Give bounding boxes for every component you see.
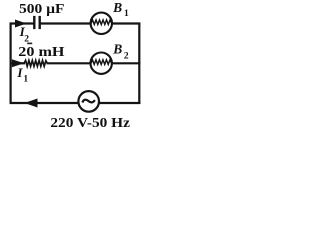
current arrow I1 (right) bbox=[12, 59, 24, 67]
current arrow I2 (right) bbox=[15, 20, 26, 28]
capacitor C 500uF plate right bbox=[39, 16, 41, 29]
svg-text:500 µF: 500 µF bbox=[19, 2, 65, 17]
current arrow bottom (left) bbox=[25, 99, 38, 108]
svg-text:B: B bbox=[112, 0, 122, 15]
lamp B1 filament zigzag bbox=[91, 20, 112, 25]
wire top branch capacitor-to-B1 segment bbox=[41, 22, 92, 24]
artifact mark above 0 bbox=[27, 43, 32, 45]
lamp B2 circle bbox=[91, 53, 112, 74]
svg-text:B: B bbox=[112, 42, 122, 57]
svg-text:I: I bbox=[16, 65, 23, 80]
wire right vertical bbox=[138, 23, 140, 105]
svg-text:220 V-50 Hz: 220 V-50 Hz bbox=[50, 116, 129, 131]
inductor L 20mH zigzag bbox=[24, 60, 47, 66]
wire left vertical bbox=[10, 23, 12, 105]
svg-text:1: 1 bbox=[23, 74, 28, 84]
lamp B1 circle bbox=[91, 13, 112, 34]
wire middle branch inductor-to-B2 segment bbox=[47, 62, 92, 64]
AC source tilde bbox=[82, 100, 95, 103]
svg-text:20 mH: 20 mH bbox=[18, 45, 64, 60]
wire middle branch left segment bbox=[10, 62, 26, 64]
AC source circle bbox=[78, 91, 99, 112]
svg-text:1: 1 bbox=[124, 9, 129, 19]
wire top branch left segment bbox=[10, 22, 34, 24]
wire bottom branch right segment bbox=[99, 102, 140, 104]
capacitor C 500uF plate left bbox=[33, 16, 35, 29]
wire bottom branch left segment bbox=[10, 102, 79, 104]
svg-text:2: 2 bbox=[124, 51, 129, 61]
wire middle branch B2-to-right segment bbox=[112, 62, 141, 64]
lamp B2 filament zigzag bbox=[91, 60, 112, 65]
wire top branch B1-to-corner segment bbox=[112, 22, 141, 24]
